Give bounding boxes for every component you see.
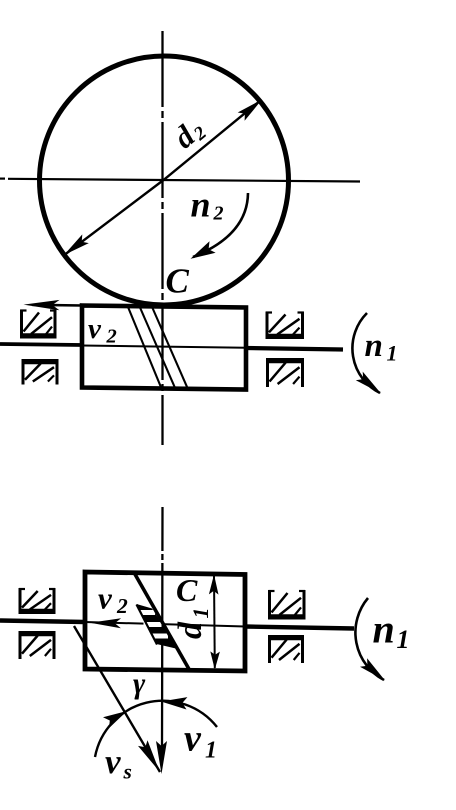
svg-text:γ: γ <box>133 668 146 700</box>
svg-text:d: d <box>172 621 209 639</box>
svg-text:1: 1 <box>188 608 213 619</box>
svg-text:v: v <box>98 581 113 616</box>
svg-text:s: s <box>123 760 132 784</box>
svg-text:2: 2 <box>213 203 224 225</box>
svg-text:2: 2 <box>116 594 128 618</box>
svg-text:1: 1 <box>387 341 398 366</box>
svg-text:v: v <box>184 718 202 760</box>
svg-text:1: 1 <box>397 625 410 654</box>
svg-text:C: C <box>166 262 190 301</box>
svg-text:v: v <box>105 742 121 781</box>
svg-text:C: C <box>176 572 198 608</box>
svg-text:v: v <box>88 313 102 345</box>
svg-text:2: 2 <box>106 326 117 348</box>
svg-text:n: n <box>373 607 395 652</box>
svg-text:n: n <box>365 328 383 364</box>
svg-text:1: 1 <box>205 738 217 764</box>
svg-text:n: n <box>191 185 211 225</box>
